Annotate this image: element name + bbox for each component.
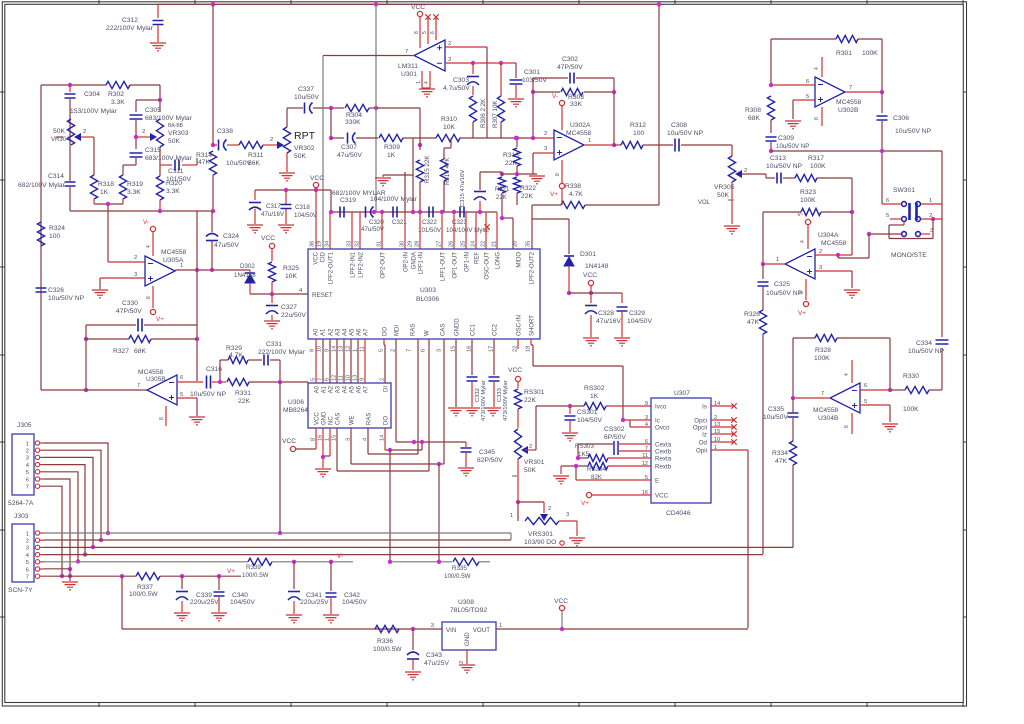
svg-text:MB8264: MB8264 bbox=[283, 407, 308, 414]
resistor R319 bbox=[119, 165, 143, 204]
svg-text:10u/50V: 10u/50V bbox=[763, 414, 788, 421]
ground bbox=[247, 225, 263, 233]
ground bbox=[174, 613, 190, 621]
svg-text:1: 1 bbox=[929, 198, 932, 204]
svg-text:C313: C313 bbox=[770, 155, 786, 162]
svg-text:VOUT: VOUT bbox=[473, 627, 490, 634]
wire mid row right bbox=[487, 137, 533, 139]
wire C305 branch bbox=[136, 99, 160, 101]
svg-text:C339: C339 bbox=[196, 592, 212, 599]
wire mid row bbox=[331, 137, 344, 139]
svg-text:C304: C304 bbox=[84, 91, 100, 98]
svg-text:V+: V+ bbox=[156, 316, 164, 323]
svg-text:27: 27 bbox=[437, 241, 443, 247]
capacitor C311 bbox=[160, 158, 197, 183]
capacitor C301 bbox=[510, 69, 548, 98]
svg-text:A3: A3 bbox=[336, 328, 342, 336]
svg-text:3.3K: 3.3K bbox=[111, 99, 125, 106]
svg-text:C303: C303 bbox=[453, 77, 469, 84]
wire V+ to rail bbox=[121, 576, 123, 629]
capacitor C332 bbox=[467, 339, 488, 421]
svg-text:GNDA: GNDA bbox=[412, 252, 418, 269]
ground bbox=[785, 121, 801, 129]
svg-text:OSC-IN: OSC-IN bbox=[517, 315, 523, 336]
svg-text:1N4148: 1N4148 bbox=[234, 272, 256, 279]
node caps rail bbox=[329, 210, 333, 214]
svg-text:C328: C328 bbox=[598, 310, 614, 317]
svg-text:3: 3 bbox=[26, 546, 29, 552]
node R313 bbox=[515, 136, 519, 140]
wire x323 gray bbox=[322, 56, 324, 250]
resistor R337 bbox=[129, 573, 241, 598]
op-amp U302A bbox=[554, 122, 592, 160]
svg-text:OP1-IN: OP1-IN bbox=[465, 252, 471, 272]
svg-text:RESET: RESET bbox=[312, 292, 333, 299]
svg-text:WE: WE bbox=[350, 415, 356, 425]
wire J303 row2 bbox=[44, 539, 511, 541]
svg-text:C327: C327 bbox=[281, 304, 297, 311]
resistor R323 bbox=[763, 189, 852, 216]
svg-text:VIN: VIN bbox=[446, 627, 456, 634]
svg-text:VCC: VCC bbox=[508, 367, 522, 374]
svg-text:3.3K: 3.3K bbox=[166, 188, 180, 195]
svg-text:A6: A6 bbox=[357, 328, 363, 336]
svg-text:3: 3 bbox=[544, 146, 547, 152]
svg-text:1: 1 bbox=[499, 623, 502, 629]
svg-text:68K: 68K bbox=[134, 348, 146, 355]
svg-text:C311: C311 bbox=[168, 168, 184, 175]
svg-text:1: 1 bbox=[26, 531, 29, 537]
diode D301 bbox=[564, 251, 609, 293]
svg-text:473/100V Mylar: 473/100V Mylar bbox=[503, 380, 509, 421]
svg-text:5: 5 bbox=[26, 560, 29, 566]
resistor R330 bbox=[890, 373, 942, 413]
svg-text:5: 5 bbox=[379, 349, 385, 352]
svg-text:R308: R308 bbox=[745, 107, 761, 114]
svg-text:CAS: CAS bbox=[336, 413, 342, 425]
svg-text:C322: C322 bbox=[422, 219, 437, 226]
node VCC rail bbox=[560, 627, 564, 631]
node header bbox=[284, 188, 288, 192]
resistor R313 bbox=[503, 138, 521, 174]
wire pin2 down bbox=[486, 47, 488, 138]
capacitor C305 bbox=[130, 107, 193, 149]
svg-text:LPF1-IN: LPF1-IN bbox=[419, 252, 425, 274]
wire U307 Ovco bbox=[630, 426, 651, 428]
svg-text:104/100V Mylar: 104/100V Mylar bbox=[446, 227, 489, 234]
ground bbox=[583, 338, 599, 346]
wire LM311 gnd pins bbox=[421, 71, 423, 88]
svg-text:2: 2 bbox=[142, 129, 145, 135]
wire U307 Ic bbox=[623, 419, 651, 421]
ground bbox=[92, 290, 108, 298]
svg-text:VCC: VCC bbox=[554, 598, 568, 605]
wire osc top bbox=[41, 84, 106, 86]
svg-text:32: 32 bbox=[355, 241, 361, 247]
svg-text:CC1: CC1 bbox=[471, 323, 477, 336]
ground bbox=[419, 89, 435, 97]
svg-text:GNDD: GNDD bbox=[455, 318, 461, 336]
wire U304B pin6 bbox=[860, 389, 890, 391]
svg-text:C326: C326 bbox=[48, 287, 64, 294]
IC U303 BL0306 bbox=[299, 241, 540, 352]
IC U307 CD4046 bbox=[642, 390, 720, 517]
node fb right bbox=[612, 90, 616, 94]
svg-text:U308: U308 bbox=[458, 599, 474, 606]
svg-text:104/50V: 104/50V bbox=[230, 599, 255, 606]
svg-text:OP2-OUT: OP2-OUT bbox=[381, 252, 387, 279]
svg-text:VRS301: VRS301 bbox=[528, 531, 553, 538]
svg-text:222/100V Mylar: 222/100V Mylar bbox=[258, 349, 306, 356]
node row5 joins bbox=[388, 560, 392, 564]
node E bbox=[574, 464, 578, 468]
resistor RS303 bbox=[575, 443, 651, 462]
wire U302A pin2 bbox=[533, 137, 554, 139]
svg-text:8: 8 bbox=[159, 417, 165, 420]
resistor R311 bbox=[227, 141, 278, 167]
capacitor C339 bbox=[176, 576, 219, 612]
node V+ row bbox=[120, 574, 124, 578]
svg-text:U301: U301 bbox=[401, 71, 417, 78]
svg-text:LPF2-OUT1: LPF2-OUT1 bbox=[329, 251, 335, 284]
svg-text:Rextb: Rextb bbox=[655, 464, 672, 471]
wire caps rail verticals bbox=[329, 212, 331, 249]
svg-text:J305: J305 bbox=[17, 422, 32, 429]
svg-text:LONG: LONG bbox=[496, 252, 502, 269]
capacitor CS302 bbox=[578, 426, 651, 455]
node C309 bbox=[769, 149, 773, 153]
wire U302A fb left bbox=[532, 92, 534, 138]
potentiometer VR305 bbox=[714, 145, 766, 224]
svg-text:R324: R324 bbox=[49, 225, 65, 232]
svg-text:6: 6 bbox=[886, 198, 889, 204]
svg-text:3: 3 bbox=[26, 456, 29, 462]
wire left pot branch bbox=[56, 136, 63, 138]
svg-text:22u/50V: 22u/50V bbox=[281, 312, 306, 319]
wire RAS wrap bbox=[367, 428, 369, 454]
svg-text:6: 6 bbox=[430, 31, 436, 34]
svg-text:R336: R336 bbox=[377, 638, 393, 645]
svg-text:DI: DI bbox=[384, 386, 390, 392]
svg-text:4: 4 bbox=[424, 81, 430, 84]
svg-text:100K: 100K bbox=[903, 406, 919, 413]
svg-text:7: 7 bbox=[849, 85, 852, 91]
node R329 bbox=[218, 380, 222, 384]
capacitor C331 bbox=[248, 341, 306, 382]
svg-text:RS301: RS301 bbox=[524, 389, 545, 396]
svg-text:U304B: U304B bbox=[818, 415, 839, 422]
svg-text:W: W bbox=[425, 330, 431, 336]
svg-text:47u/50V: 47u/50V bbox=[361, 226, 385, 233]
ground bbox=[62, 582, 78, 590]
svg-text:22: 22 bbox=[481, 241, 487, 247]
svg-text:6: 6 bbox=[26, 567, 29, 573]
wire x439 down bbox=[438, 464, 440, 562]
capacitor C322 bbox=[418, 207, 442, 235]
svg-text:VCC: VCC bbox=[282, 438, 296, 445]
svg-text:R313: R313 bbox=[503, 152, 519, 159]
svg-text:3: 3 bbox=[437, 349, 443, 352]
svg-text:100: 100 bbox=[633, 130, 644, 137]
svg-text:5: 5 bbox=[26, 470, 29, 476]
wire CAS wrap bbox=[336, 428, 338, 471]
resistor R321 bbox=[495, 174, 510, 218]
svg-text:5: 5 bbox=[180, 392, 183, 398]
wire OSC-IN down bbox=[517, 339, 519, 349]
ground bbox=[211, 613, 227, 621]
svg-text:Opci: Opci bbox=[694, 418, 707, 425]
wire x390 down bbox=[389, 450, 391, 562]
node fb bbox=[84, 337, 88, 341]
svg-text:78L05/TO92: 78L05/TO92 bbox=[450, 607, 487, 614]
ground bbox=[264, 321, 280, 329]
svg-text:BL0306: BL0306 bbox=[416, 296, 439, 303]
svg-text:C315 47u/16V: C315 47u/16V bbox=[460, 170, 466, 207]
svg-text:100K: 100K bbox=[862, 50, 878, 57]
wire R323 left down bbox=[762, 212, 764, 264]
wire U305B pin6 bbox=[177, 381, 203, 383]
wire cap header row bbox=[255, 189, 331, 191]
svg-text:1K: 1K bbox=[100, 189, 109, 196]
svg-text:47P/50V: 47P/50V bbox=[557, 64, 583, 71]
diode D302 bbox=[234, 263, 256, 294]
svg-text:C306: C306 bbox=[893, 115, 909, 122]
svg-text:47u/50V: 47u/50V bbox=[337, 152, 362, 159]
svg-text:U302A: U302A bbox=[570, 122, 591, 129]
resistor R304 bbox=[345, 104, 376, 126]
capacitor C323 bbox=[446, 207, 489, 235]
capacitor C304 bbox=[65, 85, 118, 181]
resistor RS304 bbox=[561, 462, 651, 481]
svg-text:2: 2 bbox=[819, 249, 822, 255]
svg-text:OP2-IN: OP2-IN bbox=[404, 252, 410, 272]
svg-text:25: 25 bbox=[461, 241, 467, 247]
svg-text:6: 6 bbox=[864, 383, 867, 389]
resistor R303 bbox=[561, 88, 584, 108]
capacitor C316 bbox=[190, 366, 227, 398]
resistor R328 bbox=[814, 334, 837, 362]
svg-text:4: 4 bbox=[844, 373, 850, 376]
wire U306 gnd pins bbox=[322, 428, 324, 468]
svg-text:100K: 100K bbox=[800, 197, 816, 204]
node Ic bbox=[621, 418, 625, 422]
svg-text:SCN-7Y: SCN-7Y bbox=[8, 587, 33, 594]
svg-text:J303: J303 bbox=[14, 513, 29, 520]
wire U304A out bbox=[763, 263, 785, 265]
wire MDI row bbox=[395, 339, 397, 442]
svg-text:3.3K: 3.3K bbox=[127, 189, 141, 196]
svg-text:MONO/STE: MONO/STE bbox=[891, 252, 927, 259]
no-connect marks bbox=[425, 14, 430, 19]
svg-text:C305: C305 bbox=[145, 107, 161, 114]
svg-text:Rexta: Rexta bbox=[655, 456, 672, 463]
wire SW301 pin5 wrap bbox=[903, 222, 905, 226]
svg-text:100/0.5W: 100/0.5W bbox=[129, 591, 158, 598]
svg-text:VR303: VR303 bbox=[168, 130, 189, 137]
svg-text:CID: CID bbox=[321, 251, 327, 262]
svg-text:9: 9 bbox=[645, 401, 648, 407]
svg-text:1N4148: 1N4148 bbox=[585, 263, 609, 270]
capacitor C340 bbox=[214, 576, 256, 612]
svg-text:U305B: U305B bbox=[146, 376, 166, 383]
terminal circle bbox=[560, 541, 564, 545]
svg-text:R301: R301 bbox=[836, 50, 852, 57]
svg-text:C307: C307 bbox=[341, 144, 357, 151]
svg-text:MC4558: MC4558 bbox=[821, 240, 847, 247]
svg-text:Opcii: Opcii bbox=[693, 425, 707, 432]
svg-text:33: 33 bbox=[347, 241, 353, 247]
node CS301 bbox=[568, 404, 572, 408]
node D301 bbox=[567, 291, 571, 295]
svg-text:R302: R302 bbox=[108, 91, 124, 98]
node row3 bbox=[867, 232, 871, 236]
resistor R338 bbox=[532, 183, 659, 209]
svg-text:CS301: CS301 bbox=[577, 409, 598, 416]
svg-text:C338: C338 bbox=[217, 128, 233, 135]
node C303 bbox=[471, 61, 475, 65]
resistor R302 bbox=[106, 81, 130, 106]
ground bbox=[278, 225, 294, 233]
capacitor C312 bbox=[106, 4, 164, 42]
svg-text:GND: GND bbox=[464, 632, 471, 646]
resistor R314 bbox=[196, 151, 217, 211]
svg-text:220u/25V: 220u/25V bbox=[190, 599, 219, 606]
supply V+ U304A bbox=[798, 279, 809, 317]
potentiometer VR302 RPT bbox=[270, 108, 316, 172]
capacitor C345 bbox=[461, 442, 504, 467]
capacitor C317 bbox=[249, 190, 285, 224]
svg-text:82P/50V: 82P/50V bbox=[477, 457, 503, 464]
wire Opii bbox=[711, 449, 748, 451]
wire J303 row5 gray bbox=[44, 561, 248, 563]
svg-text:3: 3 bbox=[448, 57, 451, 63]
svg-text:4.7K: 4.7K bbox=[229, 352, 243, 359]
svg-text:2: 2 bbox=[26, 449, 29, 455]
svg-text:1: 1 bbox=[180, 263, 183, 269]
no-connect pin22 bbox=[484, 224, 489, 229]
svg-text:5: 5 bbox=[886, 213, 889, 219]
node x659 top bbox=[657, 2, 661, 6]
capacitor C302 bbox=[533, 56, 614, 92]
resistor R310 bbox=[436, 116, 487, 142]
svg-text:VCC: VCC bbox=[314, 251, 320, 264]
capacitor C328 bbox=[585, 293, 621, 337]
svg-text:VCC: VCC bbox=[315, 412, 321, 425]
resistor R306 bbox=[469, 96, 487, 138]
wire top rail bbox=[158, 3, 660, 5]
VCC U301 bbox=[411, 4, 425, 22]
svg-text:V-: V- bbox=[337, 553, 343, 560]
svg-text:VR302: VR302 bbox=[294, 145, 315, 152]
svg-text:R306 2.2K: R306 2.2K bbox=[480, 98, 487, 128]
op-amp U301 LM311 bbox=[398, 40, 445, 78]
svg-text:LPF2-IN2: LPF2-IN2 bbox=[359, 251, 365, 277]
ground bbox=[882, 424, 898, 432]
svg-text:R326: R326 bbox=[744, 311, 760, 318]
supply V+ U307 bbox=[581, 492, 651, 507]
svg-text:R334: R334 bbox=[772, 450, 788, 457]
wire R328 loop bbox=[793, 337, 815, 339]
wire U305A pin3 bbox=[100, 277, 145, 279]
svg-text:8: 8 bbox=[844, 425, 850, 428]
svg-text:473/100V Mylar: 473/100V Mylar bbox=[481, 380, 487, 421]
svg-text:LPF2-OUT2: LPF2-OUT2 bbox=[530, 251, 536, 284]
svg-text:2: 2 bbox=[83, 129, 86, 135]
node U302B pin6 bbox=[769, 83, 773, 87]
svg-text:C312: C312 bbox=[122, 17, 138, 24]
svg-text:10u/50V NP: 10u/50V NP bbox=[895, 128, 932, 135]
node C324 top bbox=[211, 209, 215, 213]
svg-text:47P/50V: 47P/50V bbox=[116, 308, 142, 315]
svg-text:1: 1 bbox=[26, 441, 29, 447]
svg-text:D302: D302 bbox=[240, 263, 255, 270]
svg-text:C340: C340 bbox=[232, 592, 248, 599]
svg-text:C318: C318 bbox=[295, 204, 310, 211]
potentiometer VRS301 bbox=[510, 500, 577, 546]
resistor R320 bbox=[156, 165, 182, 211]
net tick VR301 bbox=[512, 475, 517, 477]
svg-text:104/50V: 104/50V bbox=[577, 417, 602, 424]
svg-text:18: 18 bbox=[526, 346, 532, 352]
svg-text:6: 6 bbox=[26, 477, 29, 483]
supply V- U302A bbox=[552, 93, 565, 130]
svg-text:A0: A0 bbox=[314, 328, 320, 336]
wire U305B pin8 bbox=[165, 406, 167, 426]
svg-text:33K: 33K bbox=[570, 101, 582, 108]
svg-text:4.7u/50V: 4.7u/50V bbox=[443, 85, 470, 92]
ground bbox=[724, 226, 740, 234]
capacitor C313 bbox=[766, 155, 803, 184]
wire U305B pin5 bbox=[177, 397, 197, 399]
svg-text:7: 7 bbox=[26, 485, 29, 491]
wire row5 segment2 bbox=[390, 561, 452, 563]
svg-text:2: 2 bbox=[134, 255, 137, 261]
svg-text:C301: C301 bbox=[524, 69, 540, 76]
node main mid bbox=[329, 136, 333, 140]
svg-text:34: 34 bbox=[325, 241, 331, 247]
svg-text:2: 2 bbox=[544, 131, 547, 137]
capacitor C343 bbox=[407, 629, 449, 670]
capacitor C330 loop bbox=[86, 300, 197, 339]
node VR303 top bbox=[158, 98, 162, 102]
ground bbox=[189, 417, 205, 425]
wire fb vertical x197 bbox=[196, 211, 198, 381]
capacitor C321 bbox=[392, 207, 407, 227]
capacitor C320 bbox=[361, 207, 385, 234]
svg-text:CAS: CAS bbox=[441, 324, 447, 336]
node fb left bbox=[531, 90, 535, 94]
node R304 right bbox=[374, 106, 378, 110]
resistor R329 bbox=[220, 345, 248, 382]
svg-text:RS302: RS302 bbox=[584, 385, 605, 392]
node row1 bbox=[278, 531, 282, 535]
ground bbox=[286, 615, 302, 623]
ground bbox=[569, 538, 585, 546]
svg-text:A1: A1 bbox=[322, 385, 328, 393]
capacitor C334 bbox=[908, 340, 949, 355]
svg-text:U307: U307 bbox=[674, 390, 690, 397]
svg-text:100/0.5W: 100/0.5W bbox=[373, 646, 402, 653]
node out B bbox=[84, 388, 88, 392]
capacitor C315 bbox=[123, 147, 193, 165]
svg-text:Cextb: Cextb bbox=[655, 449, 672, 456]
svg-text:C302: C302 bbox=[562, 56, 578, 63]
capacitor C324 bbox=[206, 211, 239, 270]
svg-text:R319: R319 bbox=[127, 181, 143, 188]
svg-text:C314: C314 bbox=[48, 173, 64, 180]
resistor R318 bbox=[90, 168, 114, 204]
wire SW301 row2 bbox=[890, 218, 901, 220]
